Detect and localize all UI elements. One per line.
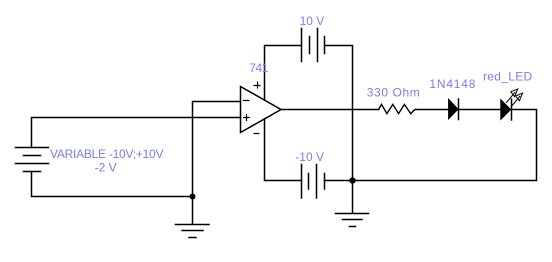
svg-text:1N4148: 1N4148 [429, 77, 476, 91]
svg-text:-10 V: -10 V [295, 150, 324, 164]
svg-text:10 V: 10 V [300, 14, 325, 28]
svg-text:741: 741 [249, 61, 268, 75]
svg-text:330 Ohm: 330 Ohm [367, 86, 421, 100]
svg-text:-2 V: -2 V [95, 160, 117, 174]
svg-text:VARIABLE -10V;+10V: VARIABLE -10V;+10V [50, 147, 163, 161]
svg-text:red_LED: red_LED [483, 69, 532, 83]
